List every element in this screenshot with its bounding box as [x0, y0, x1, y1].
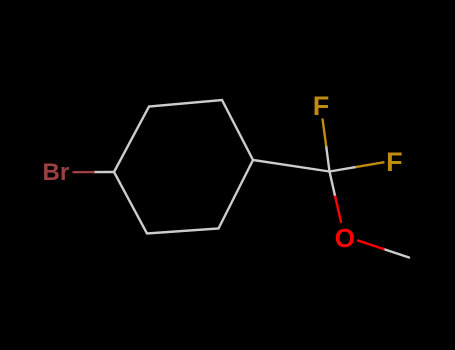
svg-text:Br: Br — [43, 159, 70, 186]
svg-text:F: F — [313, 91, 330, 121]
svg-text:F: F — [386, 147, 403, 177]
svg-text:O: O — [335, 223, 355, 253]
